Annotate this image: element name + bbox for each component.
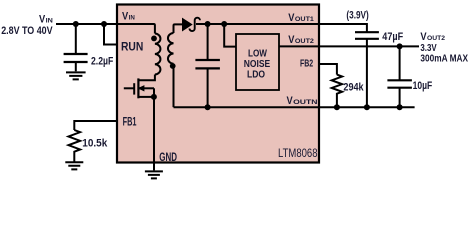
transformer T1 secondary winding bbox=[168, 33, 174, 64]
diode D1 schottky cathode bar bbox=[190, 18, 200, 31]
wire 2.2uF branch bbox=[75, 24, 77, 54]
wire MOSFET gate lead bbox=[124, 87, 134, 89]
transistor Q1 MOSFET gate bar bbox=[133, 83, 135, 94]
junction VIN-C1 bbox=[73, 21, 79, 27]
junction C2-rail bbox=[205, 104, 211, 110]
wire RUN branch bbox=[104, 24, 118, 45]
svg-text:10.5k: 10.5k bbox=[82, 138, 108, 150]
junction 10uF-rail bbox=[397, 104, 403, 110]
wire secondary top to diode anode bbox=[174, 24, 183, 33]
transformer T1 secondary phase dot bbox=[170, 63, 176, 69]
transistor Q1 MOSFET body arrow bbox=[138, 85, 145, 91]
svg-text:294k: 294k bbox=[343, 81, 364, 93]
diode D1 schottky triangle bbox=[182, 18, 193, 32]
wire FB1 branch bbox=[74, 121, 118, 130]
svg-text:RUN: RUN bbox=[121, 40, 143, 54]
resistor R2 294k zigzag bbox=[332, 75, 342, 108]
capacitor C3 47uF bbox=[355, 32, 379, 39]
svg-text:(3.9V): (3.9V) bbox=[346, 10, 369, 22]
junction VIN-RUN bbox=[101, 21, 107, 27]
capacitor C2 internal bbox=[195, 60, 220, 68]
wire LDO output VOUT2 bbox=[279, 45, 419, 47]
junction VOUT2-10uF bbox=[397, 43, 403, 49]
svg-text:FB2: FB2 bbox=[300, 58, 313, 70]
svg-text:LDO: LDO bbox=[247, 68, 265, 80]
ground symbol at C1 bbox=[66, 72, 86, 79]
svg-text:OUTN: OUTN bbox=[293, 99, 318, 106]
wire 10uF bottom bbox=[399, 88, 401, 108]
wire VIN input bbox=[56, 23, 118, 25]
svg-text:FB1: FB1 bbox=[123, 114, 137, 128]
svg-text:IN: IN bbox=[46, 18, 53, 25]
wire FB2 to 294k bbox=[319, 64, 337, 75]
ground symbol at R1 10.5k bbox=[65, 162, 83, 169]
transformer T1 primary phase dot bbox=[151, 36, 157, 42]
junction diode-C2 bbox=[205, 21, 211, 27]
wire diode cathode to VOUT1 and 47uF bbox=[196, 24, 367, 32]
wire MOSFET source stub bbox=[138, 96, 154, 98]
wire internal cap bottom bbox=[207, 68, 209, 107]
wire bottom rail VOUTN bbox=[174, 106, 415, 108]
svg-text:OUT1: OUT1 bbox=[295, 16, 314, 23]
wire internal cap top bbox=[207, 24, 209, 60]
wire LDO input tap bbox=[224, 24, 236, 47]
resistor R1 10.5k zigzag bbox=[69, 130, 81, 162]
wire MOSFET body-source to GND pin bbox=[153, 88, 155, 170]
junction Q1 source bbox=[151, 94, 157, 100]
svg-text:GND: GND bbox=[159, 150, 177, 164]
svg-text:10µF: 10µF bbox=[413, 80, 433, 92]
wire MOSFET drain bbox=[138, 75, 155, 81]
svg-text:2.2µF: 2.2µF bbox=[91, 55, 114, 67]
transistor Q1 MOSFET channel bar bbox=[137, 78, 139, 98]
svg-text:2.8V TO 40V: 2.8V TO 40V bbox=[1, 25, 53, 37]
svg-text:IN: IN bbox=[129, 14, 135, 21]
LDO block U2 bbox=[236, 34, 279, 90]
capacitor C4 10uF bbox=[387, 80, 412, 87]
capacitor C1 2.2uF bbox=[64, 54, 88, 71]
svg-text:OUT2: OUT2 bbox=[295, 38, 314, 45]
ground symbol at GND pin bbox=[145, 171, 163, 178]
wire VIN pin to primary bbox=[118, 24, 155, 34]
wire secondary bottom bbox=[173, 64, 175, 107]
wire 47uF bottom to rail bbox=[366, 39, 368, 107]
svg-text:300mA MAX: 300mA MAX bbox=[420, 53, 468, 65]
wire 10uF branch bbox=[399, 46, 401, 80]
transistor Q1 MOSFET body stub bbox=[138, 87, 154, 89]
svg-text:47µF: 47µF bbox=[382, 31, 403, 43]
transformer T1 primary winding bbox=[155, 34, 161, 75]
module U1 LTM8068 body bbox=[117, 5, 319, 163]
junction 294k-rail bbox=[334, 104, 340, 110]
junction 47uF-rail bbox=[364, 104, 370, 110]
junction diode-LDO bbox=[221, 21, 227, 27]
svg-text:LTM8068: LTM8068 bbox=[278, 148, 318, 160]
